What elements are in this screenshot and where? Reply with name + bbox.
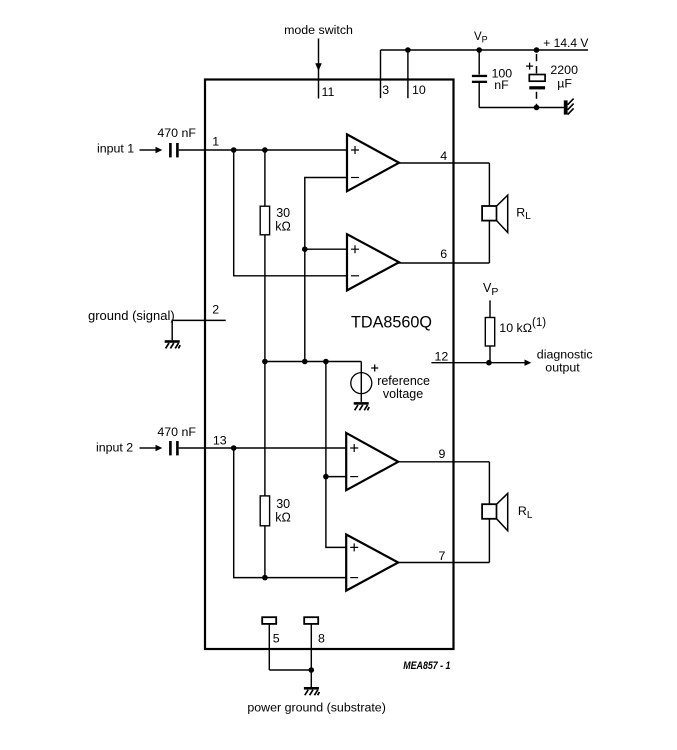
junction rail/feedback ch1 xyxy=(302,359,308,365)
svg-text:input 1: input 1 xyxy=(97,142,134,156)
junction feedback to op-amp C - xyxy=(323,474,329,480)
svg-text:13: 13 xyxy=(213,433,227,447)
ground chassis (supply) xyxy=(564,99,574,115)
arrowhead diagnostic output xyxy=(525,360,532,366)
wire reference rail xyxy=(265,361,361,363)
junction R2 bottom xyxy=(262,575,268,581)
wire speaker vertical ch2 xyxy=(488,462,490,563)
capacitor C4 470 nF xyxy=(157,425,196,455)
node A2 xyxy=(231,445,237,451)
svg-text:power ground (substrate): power ground (substrate) xyxy=(247,700,385,714)
op-amp U1D xyxy=(346,535,398,591)
svg-text:3: 3 xyxy=(382,83,389,97)
svg-text:diagnostic: diagnostic xyxy=(537,348,593,362)
wire feedback ch2 from rail xyxy=(326,362,347,548)
svg-text:8: 8 xyxy=(318,632,325,646)
svg-text:voltage: voltage xyxy=(383,387,423,401)
junction R3 / pin 12 xyxy=(486,360,492,366)
pin 10 stub xyxy=(407,50,409,98)
wire input 1 xyxy=(140,149,156,151)
wire to op-amp B + xyxy=(305,248,348,250)
arrowhead input 1 xyxy=(156,147,163,153)
svg-text:2200: 2200 xyxy=(550,63,578,77)
IC outline U1 TDA8560Q xyxy=(205,80,454,650)
junction pin 10 / supply xyxy=(405,47,411,53)
svg-text:1: 1 xyxy=(212,134,219,148)
node B1 xyxy=(262,147,268,153)
ground power (substrate) xyxy=(304,687,320,695)
wire node A1 to op-amp B - xyxy=(234,150,348,276)
wire mode switch into pin 11 xyxy=(318,39,320,99)
svg-text:kΩ: kΩ xyxy=(275,220,291,234)
ground reference xyxy=(354,402,370,410)
wire pin 6 output xyxy=(398,262,489,264)
ground signal symbol xyxy=(165,340,181,348)
wire supply top rail xyxy=(381,49,589,51)
node A1 xyxy=(231,147,237,153)
arrowhead input 2 xyxy=(156,445,163,451)
svg-text:6: 6 xyxy=(440,247,447,261)
svg-text:30: 30 xyxy=(276,206,290,220)
wire pin 7 output xyxy=(397,562,489,564)
capacitor C3 470 nF xyxy=(157,126,196,157)
wire power ground join xyxy=(269,669,311,671)
op-amp U1A xyxy=(347,134,399,191)
svg-text:MEA857 - 1: MEA857 - 1 xyxy=(403,660,450,672)
svg-text:7: 7 xyxy=(439,549,446,563)
svg-text:470 nF: 470 nF xyxy=(157,126,196,140)
resistor R3 10 kOhm xyxy=(485,300,546,362)
wire to op-amp C - xyxy=(326,476,347,478)
svg-text:11: 11 xyxy=(322,85,335,99)
svg-text:2: 2 xyxy=(212,303,219,317)
wire input 2 xyxy=(140,447,156,449)
wire pin 5 xyxy=(268,624,270,670)
wire decoupling bottom xyxy=(479,107,564,109)
junction rail/R1 xyxy=(262,359,268,365)
svg-text:TDA8560Q: TDA8560Q xyxy=(351,314,432,332)
wire pin 8 xyxy=(310,624,312,670)
resistor R2 30 kOhm xyxy=(260,362,291,578)
wire pin 13 to op-amp C + xyxy=(179,447,347,449)
svg-text:nF: nF xyxy=(494,78,509,92)
wire pin 4 output xyxy=(398,162,489,164)
svg-text:12: 12 xyxy=(435,350,449,364)
svg-text:5: 5 xyxy=(273,632,280,646)
svg-text:10: 10 xyxy=(412,83,426,97)
speaker RL channel 2 xyxy=(482,493,533,530)
svg-text:9: 9 xyxy=(439,447,446,461)
junction feedback to op-amp B + xyxy=(302,246,308,252)
svg-text:kΩ: kΩ xyxy=(275,511,291,525)
pin 5 tab xyxy=(262,617,276,624)
arrowhead mode switch xyxy=(315,63,322,71)
capacitor C2 2200 uF electrolytic xyxy=(526,54,578,108)
svg-text:output: output xyxy=(545,361,580,375)
junction 2200uF / supply xyxy=(534,47,540,53)
svg-text:30: 30 xyxy=(276,497,290,511)
wire pin 1 to op-amp A + xyxy=(179,149,348,151)
junction rail/feedback ch2 xyxy=(323,359,329,365)
junction power ground xyxy=(309,667,315,673)
junction VP node xyxy=(476,47,482,53)
wire pin 2 xyxy=(172,320,226,340)
op-amp U1B xyxy=(347,234,399,290)
reference voltage source xyxy=(351,362,430,402)
svg-text:µF: µF xyxy=(557,77,572,91)
resistor R1 30 kOhm xyxy=(260,150,291,362)
op-amp U1C xyxy=(346,433,398,490)
svg-text:4: 4 xyxy=(440,149,447,163)
capacitor C1 100 nF xyxy=(472,50,512,108)
wire pin 9 output xyxy=(397,461,489,463)
svg-text:ground (signal): ground (signal) xyxy=(88,308,175,323)
wire to power ground xyxy=(310,670,312,687)
wire node A2 to op-amp D - xyxy=(234,448,347,578)
pin 8 tab xyxy=(304,617,318,624)
svg-text:+ 14.4 V: + 14.4 V xyxy=(543,36,588,50)
junction 2200uF bottom xyxy=(534,105,540,111)
svg-text:mode switch: mode switch xyxy=(284,23,353,37)
svg-text:470 nF: 470 nF xyxy=(157,425,196,439)
wire pin 12 diagnostic xyxy=(431,362,524,364)
wire speaker vertical ch1 xyxy=(488,163,490,263)
svg-text:input 2: input 2 xyxy=(96,441,133,455)
pin 3 stub xyxy=(380,50,382,98)
svg-text:reference: reference xyxy=(377,374,430,388)
wire feedback op-amp A - xyxy=(305,178,348,362)
speaker RL channel 1 xyxy=(482,195,531,232)
